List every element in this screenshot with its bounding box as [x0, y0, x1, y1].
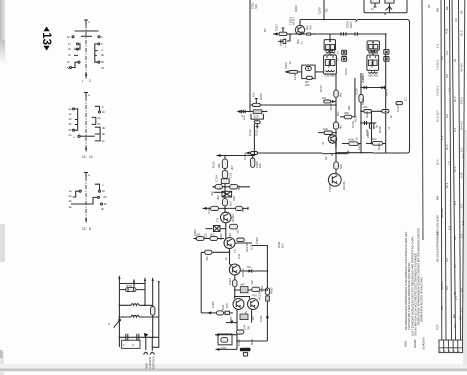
svg-text:1a: 1a: [69, 189, 73, 193]
svg-text:560: 560: [339, 164, 343, 169]
svg-text:n15: n15: [236, 229, 240, 234]
wire rail y155.5: [217, 124, 255, 156]
svg-text:M7: M7: [459, 316, 463, 320]
svg-text:c5: c5: [101, 66, 104, 70]
switch S1 short contact bar: [81, 35, 92, 37]
svg-text:0.2: 0.2: [404, 97, 408, 101]
svg-text:3c: 3c: [68, 47, 72, 51]
svg-text:a: a: [88, 93, 90, 97]
svg-text:2: 2: [285, 45, 287, 49]
svg-text:C211: C211: [293, 73, 297, 80]
svg-text:b: b: [101, 42, 103, 46]
wire y322.6 stub: [226, 322, 237, 324]
resistor R226: [348, 138, 358, 146]
svg-text:39k: 39k: [217, 163, 221, 168]
resistor R409 on link: [233, 280, 237, 287]
rung y305.3 with coil: [119, 304, 153, 307]
svg-text:5.2: 5.2: [460, 204, 464, 208]
chain vertical x225: [224, 156, 226, 213]
svg-text:o: o: [73, 135, 75, 139]
switch S2 bottom arrow: [85, 148, 87, 153]
rung y317 with coil: [119, 315, 158, 318]
svg-text:12: 12: [82, 227, 86, 231]
junction ticks on rail: [341, 32, 346, 36]
resistor R223: [344, 111, 352, 119]
svg-text:R209: R209: [259, 93, 263, 100]
svg-text:4.4-6.2: 4.4-6.2: [460, 121, 464, 130]
svg-text:R214: R214: [319, 85, 323, 92]
bus tick labels: [427, 4, 464, 320]
svg-text:M8: M8: [436, 8, 440, 12]
wire: main vertical feed: [249, 0, 251, 112]
transistor TS403: [233, 299, 244, 310]
svg-text:3b: 3b: [104, 202, 108, 206]
svg-text:C405: C405: [211, 301, 215, 308]
switch S3 bottom arrow: [85, 219, 87, 224]
svg-text:B0: B0: [453, 291, 457, 295]
svg-text:1n: 1n: [300, 40, 304, 44]
detector icon D2: [384, 50, 389, 55]
detector icon D3: [336, 57, 347, 62]
svg-text:0.9: 0.9: [453, 324, 457, 328]
svg-text:3a: 3a: [69, 107, 73, 111]
svg-text:S20: S20: [232, 196, 236, 201]
svg-text:R218: R218: [354, 115, 358, 122]
svg-text:5.7: 5.7: [453, 264, 457, 268]
svg-text:R410: R410: [270, 287, 274, 294]
switch S2 right small bracket: [92, 116, 101, 126]
svg-text:1k: 1k: [288, 60, 292, 64]
capacitor C221: [369, 123, 378, 129]
svg-text:A6: A6: [460, 10, 464, 14]
bus bottom labels: [404, 337, 426, 349]
svg-text:1.8: 1.8: [461, 221, 465, 225]
capacitor C301 hang: [251, 156, 262, 169]
trimmer box: [221, 179, 229, 184]
switch S1 axis (dash-dot): [85, 24, 87, 80]
switch S2 left bracket: [69, 107, 78, 137]
small labels scattered in IF strip: [321, 88, 391, 156]
svg-text:GA: GA: [322, 96, 326, 100]
base link to TS404: [235, 297, 250, 299]
switch S1 contact 5 left: [72, 36, 74, 38]
bus wire 3: [445, 0, 447, 340]
svg-text:C224: C224: [396, 105, 400, 112]
svg-text:n5: n5: [321, 141, 325, 145]
svg-text:1.9: 1.9: [436, 44, 440, 48]
switch lever: [108, 319, 121, 328]
svg-text:220: 220: [305, 83, 310, 87]
svg-text:C314: C314: [215, 175, 219, 182]
svg-text:AC125: AC125: [245, 243, 249, 252]
switch S3 axis (dash-dot): [85, 177, 87, 218]
svg-text:C214: C214: [361, 73, 365, 80]
svg-text:S20: S20: [254, 4, 258, 9]
svg-text:5W: 5W: [247, 325, 251, 330]
svg-text::4: :4: [132, 343, 135, 347]
svg-text:470: 470: [309, 25, 313, 30]
wire rail y238.5: [194, 238, 225, 240]
connector hooks: [144, 352, 155, 354]
svg-text:OA: OA: [247, 265, 251, 269]
svg-text:470: 470: [252, 294, 257, 298]
svg-text:9.4: 9.4: [453, 128, 457, 132]
electrolytic C411 (black): [240, 348, 251, 356]
wire horizontals: [361, 87, 386, 89]
svg-text:2k2: 2k2: [372, 137, 377, 141]
resistor R224: [323, 127, 332, 135]
link TS401-TS402: [229, 249, 231, 265]
svg-text:C318: C318: [207, 207, 211, 214]
svg-text:o: o: [102, 183, 104, 187]
svg-text:R229: R229: [377, 143, 381, 150]
svg-text:5o: 5o: [67, 35, 71, 39]
svg-text:4k7: 4k7: [339, 124, 343, 129]
resistor R220: [334, 90, 343, 97]
transistor TS202: [328, 173, 346, 192]
short rail y192.3: [214, 191, 224, 193]
svg-text:M6: M6: [452, 314, 456, 318]
svg-text:4b: 4b: [101, 207, 105, 211]
svg-text:2c: 2c: [102, 139, 106, 143]
svg-text:B201: B201: [404, 340, 408, 347]
bottom page-edge band: [0, 350, 467, 372]
svg-text:10.2: 10.2: [453, 96, 457, 102]
bus wire 5: [452, 0, 456, 340]
wire A1 to B1: [330, 50, 373, 55]
svg-text:1b: 1b: [102, 110, 106, 114]
switch S1 left bracket contacts: [68, 42, 80, 57]
rail-end component: [246, 152, 258, 155]
svg-text:TOT: TOT: [436, 324, 440, 330]
switch S2 right top hook: [95, 105, 106, 114]
svg-text:C409: C409: [255, 237, 259, 244]
switch S1 shaft tick: [84, 20, 88, 24]
svg-text:b: b: [101, 35, 103, 39]
resistor R308: [230, 224, 238, 229]
resistor R408: [240, 314, 251, 330]
svg-text:KOPTELE: KOPTELE: [152, 356, 156, 369]
svg-text:1k8: 1k8: [323, 127, 328, 131]
svg-text:10.4: 10.4: [436, 159, 440, 165]
svg-text:7.6-10.5: 7.6-10.5: [436, 59, 440, 70]
switch S2 right big bracket: [95, 126, 106, 143]
svg-text:C410: C410: [237, 339, 241, 346]
crystal X302: [214, 226, 221, 232]
bus terminal table: [439, 340, 463, 353]
resistor R304: [230, 185, 238, 189]
capacitor C410: [230, 321, 244, 335]
svg-text:4k7: 4k7: [228, 232, 232, 237]
svg-text:100: 100: [258, 163, 262, 168]
svg-text:1n: 1n: [336, 50, 340, 54]
wire: oscillator rail y19.5: [300, 19, 356, 21]
svg-text:3.4: 3.4: [448, 226, 452, 230]
svg-text:9.1: 9.1: [453, 201, 457, 205]
switch S1 bottom arrow: [85, 74, 87, 79]
svg-text:2k2: 2k2: [210, 233, 215, 237]
svg-text:2: 2: [89, 79, 91, 83]
svg-text:C208: C208: [318, 7, 322, 14]
resistor R228: [334, 162, 343, 169]
svg-text:5o: 5o: [67, 66, 71, 70]
wire verticals: [335, 74, 337, 175]
svg-text:5b: 5b: [69, 128, 73, 132]
svg-text:a: a: [88, 173, 90, 177]
svg-text:3a: 3a: [69, 199, 73, 203]
svg-text:a: a: [88, 20, 90, 24]
svg-text:5b: 5b: [102, 132, 106, 136]
svg-text:R402: R402: [219, 233, 223, 240]
wire rail y228.6: [206, 223, 226, 239]
svg-text:3b: 3b: [101, 53, 105, 57]
svg-text:82: 82: [330, 152, 334, 156]
svg-text:R312: R312: [212, 161, 216, 168]
svg-text:2b: 2b: [69, 117, 73, 121]
svg-text:1n: 1n: [218, 186, 222, 190]
svg-text:C401: C401: [193, 229, 197, 236]
resistor R218 vertical on x361: [359, 95, 363, 103]
switch S1 contact right top: [98, 36, 100, 38]
resistor R227: [372, 137, 383, 145]
IF right cluster: [396, 97, 408, 112]
resistor R410 on right rail: [265, 287, 273, 301]
svg-text:C216: C216: [355, 88, 359, 95]
resistor R on x152.7: [151, 307, 155, 316]
switch S2 shaft tick: [84, 93, 88, 98]
page edge shading right: [463, 130, 467, 365]
resistor R403: [205, 250, 212, 261]
labels below TS301: [204, 229, 240, 238]
resistor R221: [363, 105, 371, 113]
bus wire 1: [422, 0, 423, 240]
svg-text:R404: R404: [228, 278, 232, 285]
svg-text:C219: C219: [357, 143, 361, 150]
detector icon D1: [336, 50, 347, 55]
connector drop wires: [146, 337, 159, 350]
resistor R407: [217, 311, 230, 315]
TS401 collector parts: [235, 238, 254, 252]
svg-text:OA79: OA79: [385, 88, 389, 96]
svg-text:S20 452: S20 452: [368, 74, 379, 78]
svg-text:n22: n22: [250, 280, 254, 285]
svg-text:TS: TS: [233, 249, 237, 253]
svg-text:R221: R221: [365, 111, 369, 118]
svg-text:R204: R204: [294, 5, 298, 12]
svg-text:5b: 5b: [101, 60, 105, 64]
svg-text:6.2: 6.2: [460, 148, 464, 152]
crystal X301: [216, 191, 236, 201]
svg-text:4c: 4c: [67, 60, 71, 64]
switch S3 shaft tick: [84, 173, 88, 178]
svg-text:R217: R217: [361, 98, 365, 105]
svg-text:MA-MG: MA-MG: [440, 208, 444, 218]
svg-text:R207: R207: [349, 21, 353, 28]
svg-text:1b: 1b: [102, 189, 106, 193]
svg-text:1.5: 1.5: [460, 234, 464, 238]
svg-text:AF117: AF117: [292, 17, 296, 25]
switch S1 right bracket contacts: [95, 42, 105, 70]
wire: antenna input rail y34: [273, 34, 386, 50]
svg-text:B2: B2: [263, 28, 267, 32]
svg-text:n47: n47: [240, 283, 245, 287]
page index label 13 with arrows: [40, 27, 52, 51]
svg-text:TS204: TS204: [328, 183, 332, 192]
wire rail y186.8: [212, 186, 250, 188]
svg-text:GEMESSEN AN DER SCHALTUNG: GEMESSEN AN DER SCHALTUNG: [420, 277, 424, 322]
resistor R307: [236, 206, 243, 210]
bus wire 7: [463, 0, 465, 340]
svg-text:S20 454: S20 454: [368, 51, 379, 55]
feedback box: [215, 333, 237, 350]
svg-text:0.1: 0.1: [461, 154, 465, 158]
svg-text:2c: 2c: [68, 53, 72, 57]
transistor TS402: [229, 264, 245, 277]
resistor R406: [252, 287, 260, 297]
svg-text:1k: 1k: [389, 114, 393, 118]
bus wire 6: [459, 0, 461, 340]
svg-text:1k5: 1k5: [229, 201, 233, 206]
svg-text:2.1: 2.1: [440, 136, 444, 140]
bus wire 4: [450, 0, 452, 340]
svg-text:10.1: 10.1: [445, 182, 449, 188]
svg-text:R311: R311: [255, 129, 259, 136]
svg-text:C213: C213: [344, 68, 348, 75]
resistor R306: [211, 206, 219, 210]
dial lamp: [119, 279, 145, 292]
svg-text:13: 13: [40, 32, 52, 45]
svg-text:4.1: 4.1: [445, 258, 449, 262]
svg-text:0.8: 0.8: [445, 74, 449, 78]
transistor TS404: [244, 291, 262, 314]
resistor R402: [210, 236, 218, 240]
svg-text:1R: 1R: [251, 316, 255, 320]
svg-text:C41: C41: [237, 253, 241, 259]
coupling parts on rail: [307, 33, 331, 40]
svg-text:AC126: AC126: [241, 268, 245, 277]
more bus value labels: [440, 18, 465, 300]
svg-text:n1: n1: [387, 126, 391, 130]
scan smudge bottom-left: [0, 352, 4, 375]
svg-text:3.2: 3.2: [445, 51, 449, 55]
svg-text:SK-PU: SK-PU: [440, 281, 444, 290]
svg-text:9.6: 9.6: [454, 18, 458, 22]
svg-text:TS: TS: [216, 218, 220, 222]
AGC diode cluster: [322, 96, 336, 103]
oscillator/mixer input row y111.5: [237, 110, 268, 129]
svg-text:1: 1: [82, 79, 84, 83]
switch S2 axis (dash-dot): [85, 97, 87, 147]
IF transformer block A1: [324, 40, 336, 57]
svg-text:B9: B9: [445, 6, 449, 10]
right rails with top arrows: [144, 277, 160, 337]
svg-text:10: 10: [89, 155, 93, 159]
svg-text:10.4: 10.4: [445, 144, 449, 150]
wire rail y252.3 + left rail: [201, 252, 229, 313]
svg-text:C219: C219: [351, 121, 355, 128]
IF transformer block B2: [367, 55, 379, 77]
svg-text:68k: 68k: [347, 105, 351, 110]
wire rail y208.4: [203, 207, 249, 209]
switch S3 left hook: [73, 190, 82, 197]
scan smudge left edge middle: [0, 224, 5, 262]
svg-text:lamp: lamp: [126, 284, 133, 288]
emitter rails down: [237, 310, 267, 350]
svg-text:9.0: 9.0: [445, 286, 449, 290]
svg-text:d: d: [101, 48, 103, 52]
node junction: [289, 33, 291, 35]
svg-text:5k6: 5k6: [237, 185, 241, 190]
svg-text:AC126: AC126: [342, 181, 346, 190]
wire: top feed x324: [323, 0, 325, 20]
trimmer R405: [240, 283, 248, 293]
transistor TS401: [224, 238, 235, 249]
svg-text:14: 14: [82, 155, 86, 159]
scan smudge top-left edge: [0, 0, 6, 64]
svg-text:1R: 1R: [229, 316, 233, 320]
svg-text:n22: n22: [210, 191, 214, 196]
svg-text:MA: MA: [436, 196, 440, 200]
svg-text:2b: 2b: [104, 195, 108, 199]
svg-text:1n: 1n: [371, 7, 375, 11]
svg-text:2C: 2C: [453, 58, 457, 62]
wire y349.4: [216, 348, 238, 350]
wire rail y312: [201, 312, 233, 314]
wire TS402 down: [234, 275, 236, 299]
svg-text:7.4-10.5: 7.4-10.5: [436, 85, 440, 96]
svg-text:GRAM: GRAM: [413, 339, 417, 348]
svg-text:3b: 3b: [98, 122, 102, 126]
svg-text:4.5-9.5: 4.5-9.5: [460, 63, 464, 72]
IF transformer block B1: [324, 55, 337, 77]
svg-text:5k6: 5k6: [336, 111, 340, 116]
svg-text:150: 150: [225, 303, 229, 308]
svg-text:10.4: 10.4: [453, 166, 457, 172]
svg-text:S: S: [108, 322, 110, 326]
resistor R302: [222, 170, 232, 178]
svg-text:B5: B5: [325, 8, 329, 12]
transistor TS201: [289, 16, 313, 44]
switch S3 wiper step line: [71, 195, 107, 211]
node: input arrow: [273, 32, 278, 35]
svg-text:500u: 500u: [250, 338, 254, 345]
svg-text:0.25: 0.25: [460, 172, 464, 178]
svg-text:47k: 47k: [205, 256, 209, 261]
svg-text:1b: 1b: [69, 112, 73, 116]
wire y245.5 to right rail: [252, 246, 267, 342]
svg-text:C31: C31: [229, 172, 233, 178]
left rail: [118, 284, 120, 348]
svg-text:TS203: TS203: [334, 139, 338, 148]
IF module boundary box: [322, 20, 410, 154]
diode on right rail: [259, 315, 269, 322]
diode D205: [361, 75, 367, 89]
svg-text:C218: C218: [365, 129, 369, 136]
bottom rung y337.3 with caps: [119, 334, 158, 349]
svg-text:C312: C312: [248, 129, 252, 136]
svg-text:0-6: 0-6: [448, 88, 452, 92]
resistor R222: [382, 110, 393, 119]
svg-text:S205: S205: [370, 61, 374, 68]
svg-text:CHASSIS: CHASSIS: [421, 337, 425, 349]
svg-text:8k2: 8k2: [339, 92, 343, 97]
module box M2 (top, cut): [364, 0, 407, 15]
top rail: [119, 283, 145, 285]
svg-text:1n: 1n: [336, 57, 340, 61]
svg-text:A5: A5: [427, 4, 431, 8]
svg-text:M5: M5: [440, 306, 444, 310]
svg-text:AF116: AF116: [231, 214, 235, 222]
